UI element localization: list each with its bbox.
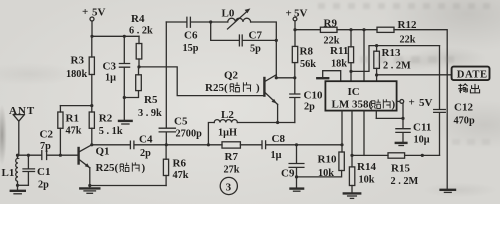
svg-text:C10: C10 (304, 89, 323, 101)
label R25(贴片) for Q2 (205, 82, 260, 94)
svg-text:15p: 15p (183, 43, 199, 54)
capacitor C9 (281, 145, 304, 188)
power terminal +5V (left) (82, 6, 106, 36)
resistor R14 (349, 111, 376, 193)
output box DATE (452, 67, 490, 81)
node: rail A (90, 35, 139, 38)
ground (Q1 emitter) (80, 186, 99, 194)
svg-text:DATE: DATE (457, 69, 488, 80)
capacitor C5 (159, 116, 202, 145)
svg-text:L0: L0 (222, 8, 235, 20)
label 输出 (output) (458, 84, 479, 93)
svg-text:C3: C3 (103, 61, 117, 73)
capacitor C2 (40, 129, 54, 160)
svg-text:R25(: R25( (205, 82, 228, 94)
op-amp IC U1 (LM358) box (325, 81, 396, 110)
wire: antenna node (16, 154, 78, 157)
svg-text:Q2: Q2 (224, 69, 239, 81)
resistor R10 (297, 152, 345, 179)
capacitor C10 (290, 78, 323, 123)
svg-text:R12: R12 (398, 19, 417, 31)
svg-text:5V: 5V (92, 7, 106, 19)
svg-text:18k: 18k (331, 58, 347, 69)
svg-text:LM 358(: LM 358( (332, 99, 373, 111)
svg-text:47k: 47k (66, 126, 82, 137)
svg-text:3 . 9k: 3 . 9k (138, 108, 162, 119)
svg-text:C5: C5 (174, 116, 188, 128)
svg-text:22k: 22k (400, 34, 416, 45)
svg-text:R9: R9 (324, 18, 338, 30)
svg-text:10k: 10k (359, 175, 375, 186)
capacitor C1 (16, 155, 51, 190)
wire: vertical C6-C5 link (165, 22, 167, 128)
svg-text:47k: 47k (173, 170, 189, 181)
svg-text:6 . 2k: 6 . 2k (129, 26, 153, 37)
svg-text:5 . 1k: 5 . 1k (99, 126, 123, 137)
ground (C9) (291, 189, 304, 192)
ground (C11) (396, 143, 407, 146)
resistor R12 (377, 19, 417, 45)
ground (R14) (344, 193, 360, 198)
label R25(贴片) for Q1 (96, 162, 146, 174)
capacitor C3 (103, 36, 130, 99)
svg-text:R1: R1 (66, 113, 79, 125)
ground (C3/R5) (119, 98, 132, 125)
IC +5V pin loop (376, 97, 432, 121)
input pad symbol (317, 71, 340, 82)
svg-text:C11: C11 (413, 122, 431, 134)
svg-text:1μ: 1μ (105, 73, 116, 84)
inductor L0 (variable) (209, 8, 276, 41)
resistor R3 (66, 36, 94, 105)
resistor R2 (89, 106, 123, 145)
svg-text:+: + (409, 97, 415, 109)
svg-text:Q1: Q1 (96, 146, 110, 158)
wire: main collector line (90, 143, 343, 146)
capacitor C11 (396, 118, 431, 145)
resistor R4 (129, 13, 153, 69)
svg-text:C7: C7 (249, 30, 263, 42)
svg-text:C9: C9 (281, 168, 295, 180)
inductor L2 (208, 109, 294, 145)
svg-text:): ) (142, 162, 146, 174)
antenna ANT (9, 105, 35, 155)
svg-text:27k: 27k (224, 165, 240, 176)
resistor R7 (222, 142, 240, 176)
node: rail B (60, 104, 93, 107)
svg-text:R25(: R25( (96, 162, 119, 174)
svg-text:C2: C2 (40, 129, 54, 141)
power terminal +5V (middle) (286, 8, 308, 32)
IC pin to R10 / main line (341, 111, 343, 152)
IC pin to R15 line (352, 111, 388, 156)
wire: R4/R5 junction to Q2 base (139, 67, 264, 96)
svg-text:R10: R10 (318, 154, 337, 166)
svg-text:R7: R7 (225, 151, 239, 163)
resistor R15 (388, 153, 440, 187)
svg-text:2p: 2p (38, 180, 49, 191)
svg-text:R5: R5 (144, 94, 158, 106)
resistor R6 (90, 145, 189, 186)
ground (rail line) (441, 190, 455, 193)
svg-text:56k: 56k (300, 59, 316, 70)
svg-text:R6: R6 (173, 158, 187, 170)
svg-text:5p: 5p (250, 44, 261, 55)
svg-text:5V: 5V (419, 97, 433, 109)
svg-text:470p: 470p (454, 115, 475, 126)
svg-text:R15: R15 (391, 163, 410, 175)
wire: Q2 collector to R8/C10 (276, 76, 296, 79)
transistor Q2 (224, 40, 278, 122)
resistor R8 (292, 30, 316, 78)
wire: feedback link (351, 44, 440, 71)
svg-text:L1: L1 (2, 167, 15, 179)
svg-text:R11: R11 (330, 45, 348, 57)
capacitor C7 (211, 22, 278, 55)
svg-text:+: + (286, 8, 292, 20)
svg-text:2700p: 2700p (176, 129, 203, 140)
svg-text:R14: R14 (357, 161, 376, 173)
svg-text:R8: R8 (300, 46, 314, 58)
resistor R11 (330, 30, 354, 81)
svg-text:): ) (392, 99, 396, 111)
svg-text:7p: 7p (40, 141, 51, 152)
svg-text:C1: C1 (37, 166, 50, 178)
resistor R13 (374, 46, 411, 82)
svg-text:R3: R3 (71, 55, 85, 67)
inductor L1 (2, 155, 19, 185)
svg-text:2p: 2p (304, 102, 315, 113)
svg-text:C6: C6 (184, 30, 198, 42)
resistor R1 (58, 106, 82, 156)
resistor R5 (124, 67, 162, 119)
svg-text:IC: IC (348, 86, 360, 98)
svg-text:180k: 180k (66, 69, 87, 80)
capacitor C8 (262, 133, 285, 161)
svg-text:C12: C12 (454, 102, 473, 114)
svg-text:R4: R4 (131, 13, 145, 25)
wire: rail to IC pin (363, 30, 365, 81)
circled 3 mark (220, 177, 237, 194)
svg-text:C4: C4 (139, 133, 153, 145)
wire: output to DATE (377, 74, 452, 76)
svg-text:C8: C8 (272, 133, 286, 145)
wire: +5V rail C (295, 28, 447, 189)
transistor Q1 (79, 145, 110, 187)
svg-text:1μ: 1μ (271, 150, 282, 161)
resistor R9 (320, 18, 339, 47)
svg-text:2p: 2p (140, 148, 151, 159)
svg-text:+: + (82, 6, 88, 18)
svg-text:1μH: 1μH (218, 128, 237, 139)
capacitor C4 (130, 133, 153, 159)
svg-text:10μ: 10μ (414, 135, 430, 146)
svg-text:3: 3 (226, 182, 232, 194)
svg-text:L2: L2 (221, 109, 234, 121)
ground (L1/C1) (11, 185, 25, 194)
capacitor C6 (166, 17, 210, 54)
svg-text:): ) (256, 82, 260, 94)
svg-text:2 . 2M: 2 . 2M (391, 176, 419, 187)
svg-text:R2: R2 (99, 113, 113, 125)
capacitor C12 (434, 46, 475, 156)
svg-text:10k: 10k (318, 168, 334, 179)
